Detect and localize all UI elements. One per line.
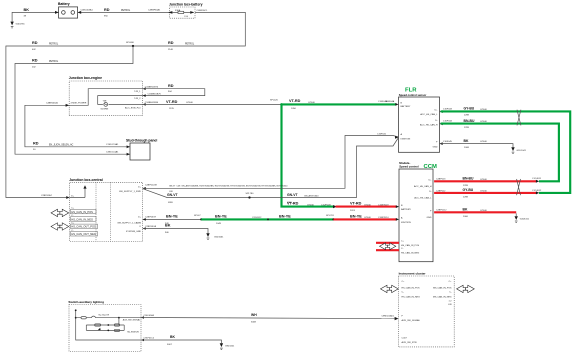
svg-text:PETROL: PETROL <box>49 61 59 63</box>
svg-text:RD: RD <box>32 41 38 45</box>
svg-text:C16BT014: C16BT014 <box>378 217 389 219</box>
svg-text:RD: RD <box>32 59 38 63</box>
svg-text:GT040: GT040 <box>480 141 487 143</box>
svg-text:SPL780: SPL780 <box>246 193 255 195</box>
svg-text:C16F04A: C16F04A <box>385 100 395 103</box>
svg-text:PETROL: PETROL <box>185 43 195 45</box>
svg-text:GW_SUPPLY_1_CABIN: GW_SUPPLY_1_CABIN <box>117 221 141 224</box>
svg-text:HS_CAN_IN_NEG: HS_CAN_IN_NEG <box>401 252 420 255</box>
svg-text:C4BF30C1: C4BF30C1 <box>197 10 209 12</box>
svg-text:C16F044: C16F044 <box>443 121 453 123</box>
svg-text:G5D1061: G5D1061 <box>214 236 224 238</box>
svg-text:LIN: LIN <box>448 304 452 306</box>
svg-text:C2BP01J08: C2BP01J08 <box>145 184 157 186</box>
svg-text:ACC_HS_CAN_H: ACC_HS_CAN_H <box>420 123 438 126</box>
svg-text:SPL420: SPL420 <box>270 100 279 102</box>
svg-text:Speed control sensor: Speed control sensor <box>399 93 426 97</box>
svg-text:C-: C- <box>401 248 404 250</box>
svg-text:Sw_NavOff: Sw_NavOff <box>98 315 109 317</box>
svg-text:HS_CAN_IN_POS: HS_CAN_IN_POS <box>402 286 421 289</box>
svg-text:C007: C007 <box>402 338 408 340</box>
svg-text:2298: 2298 <box>463 197 469 199</box>
svg-text:GT040: GT040 <box>364 217 371 219</box>
svg-text:G1D1041: G1D1041 <box>517 150 527 152</box>
svg-text:4703E_POWER: 4703E_POWER <box>71 103 87 105</box>
svg-text:MS_CAN_IN_POS: MS_CAN_IN_POS <box>433 286 452 289</box>
svg-text:C4BE001A1: C4BE001A1 <box>46 102 59 105</box>
svg-text:VT-RD: VT-RD <box>289 99 301 103</box>
svg-text:Stud-through panel: Stud-through panel <box>126 138 157 142</box>
svg-text:BK: BK <box>24 8 30 12</box>
svg-text:C16BE01B74: C16BE01B74 <box>145 87 159 89</box>
svg-text:GN-VT: GN-VT <box>287 193 298 197</box>
svg-text:BN-YE: BN-YE <box>215 215 227 219</box>
svg-text:C2BP05G7: C2BP05G7 <box>145 217 157 219</box>
svg-text:Junction box-engine: Junction box-engine <box>69 76 102 80</box>
svg-text:HS_CAN_OUT_NEG: HS_CAN_OUT_NEG <box>71 232 96 236</box>
svg-text:D-: D- <box>429 191 432 193</box>
svg-text:MS_CAN_IN_NEG: MS_CAN_IN_NEG <box>433 296 452 299</box>
svg-text:C9LF01C2: C9LF01C2 <box>144 337 155 339</box>
svg-text:C16F043: C16F043 <box>443 109 453 111</box>
svg-text:50 BRN: 50 BRN <box>101 108 109 110</box>
svg-text:G401781: G401781 <box>16 24 26 26</box>
svg-text:GN-VT C08 GN_A/GT0340/BK, RD: GN-VT C08 GN_A/GT0340/BK, RD/GT0340/BK, … <box>169 184 288 187</box>
svg-text:HS_CAN_IN_POS: HS_CAN_IN_POS <box>401 244 420 247</box>
svg-text:VT-RD: VT-RD <box>350 202 362 206</box>
svg-text:HS_CAN_IN_POS: HS_CAN_IN_POS <box>71 210 93 214</box>
svg-text:2299: 2299 <box>464 127 470 129</box>
svg-text:BK: BK <box>464 139 469 143</box>
svg-text:GN_A/GT0340: GN_A/GT0340 <box>304 195 319 198</box>
svg-text:C9LF01A3: C9LF01A3 <box>144 314 155 317</box>
svg-text:F-E: F-E <box>185 16 189 18</box>
svg-text:RD: RD <box>168 41 174 45</box>
svg-text:BATTERY: BATTERY <box>401 105 411 108</box>
svg-text:BK: BK <box>165 224 171 228</box>
svg-text:RD: RD <box>104 8 110 12</box>
svg-text:PETROL: PETROL <box>121 10 131 12</box>
svg-text:ACC_EOB_FL0: ACC_EOB_FL0 <box>125 106 141 109</box>
svg-text:RD: RD <box>33 141 39 145</box>
svg-text:C2BP05G8: C2BP05G8 <box>145 226 157 228</box>
svg-text:1049: 1049 <box>216 223 222 225</box>
svg-text:VT-RD: VT-RD <box>166 100 178 104</box>
svg-text:2008: 2008 <box>464 147 470 149</box>
svg-text:G9D1161: G9D1161 <box>225 346 235 348</box>
svg-text:T4F_1: T4F_1 <box>134 91 141 93</box>
svg-text:C-: C- <box>402 292 405 294</box>
svg-text:BK: BK <box>463 208 468 212</box>
svg-text:0920: 0920 <box>168 202 174 204</box>
svg-text:RD: RD <box>168 84 174 88</box>
svg-text:AUX_SW_SIGNAL: AUX_SW_SIGNAL <box>402 319 421 322</box>
svg-text:T4F_2: T4F_2 <box>134 98 141 100</box>
svg-text:1050: 1050 <box>291 108 297 110</box>
svg-text:C3SDC11A1: C3SDC11A1 <box>106 151 119 154</box>
svg-text:GT040: GT040 <box>480 121 487 123</box>
svg-text:C1SDC11A1: C1SDC11A1 <box>106 143 119 146</box>
svg-text:Speed control: Speed control <box>399 165 418 169</box>
svg-text:C16BE01B75: C16BE01B75 <box>148 94 162 96</box>
svg-text:2146: 2146 <box>168 49 174 51</box>
svg-text:C2G2012: C2G2012 <box>252 217 262 219</box>
svg-text:Junction box-battery: Junction box-battery <box>169 3 203 7</box>
svg-text:BN-YE: BN-YE <box>279 215 291 219</box>
svg-text:C4BC004A1: C4BC004A1 <box>81 9 94 12</box>
svg-text:HS_CAN_IN_NEG: HS_CAN_IN_NEG <box>71 217 93 221</box>
svg-text:5008: 5008 <box>251 321 257 323</box>
svg-text:C2BP013: C2BP013 <box>436 179 446 181</box>
svg-text:2006: 2006 <box>463 216 469 218</box>
svg-text:T4E: T4E <box>103 100 108 102</box>
svg-text:GT040: GT040 <box>307 204 314 206</box>
svg-text:ACC_HS_CAN_L: ACC_HS_CAN_L <box>420 113 438 116</box>
svg-text:TA_STATUS: TA_STATUS <box>127 330 139 333</box>
svg-text:GT040: GT040 <box>480 210 487 212</box>
svg-text:BN-BU: BN-BU <box>463 177 474 181</box>
svg-text:BK: BK <box>170 335 175 339</box>
svg-text:IGNITION: IGNITION <box>401 222 411 224</box>
svg-text:0920: 0920 <box>287 202 293 204</box>
svg-text:GT040: GT040 <box>308 102 315 104</box>
svg-text:GT040: GT040 <box>480 179 487 181</box>
svg-text:GT040: GT040 <box>186 102 193 104</box>
svg-text:WH: WH <box>251 313 257 317</box>
svg-text:PETROL: PETROL <box>49 43 59 45</box>
svg-text:SPL47: SPL47 <box>194 215 201 217</box>
svg-text:GY-BU: GY-BU <box>464 107 475 111</box>
svg-text:C9MC01A01: C9MC01A01 <box>381 314 394 317</box>
svg-text:C1C4011: C1C4011 <box>532 178 542 180</box>
svg-text:SPL480: SPL480 <box>126 42 135 44</box>
svg-text:AUX_SW_RTN: AUX_SW_RTN <box>402 341 417 344</box>
svg-text:GW_SUPPLY_1_FWD: GW_SUPPLY_1_FWD <box>119 191 142 193</box>
svg-text:ACC_HS_CAN_L: ACC_HS_CAN_L <box>414 196 432 199</box>
svg-text:2298: 2298 <box>464 115 470 117</box>
svg-text:Switch-auxiliary lighting: Switch-auxiliary lighting <box>68 300 104 304</box>
svg-text:Instrument cluster: Instrument cluster <box>399 272 427 276</box>
svg-text:GY-BU: GY-BU <box>463 188 474 192</box>
svg-text:BN-YE: BN-YE <box>350 215 362 219</box>
svg-text:C4EBF30A1: C4EBF30A1 <box>148 9 161 12</box>
svg-text:2299: 2299 <box>463 185 469 187</box>
svg-text:GT040: GT040 <box>480 191 487 193</box>
svg-text:C2BP0112: C2BP0112 <box>436 210 447 212</box>
svg-text:BATTERY: BATTERY <box>401 208 411 211</box>
svg-text:BN-YE: BN-YE <box>166 215 178 219</box>
svg-text:C16BT019: C16BT019 <box>378 204 389 206</box>
svg-text:5007: 5007 <box>167 344 173 346</box>
svg-text:D-: D- <box>435 120 438 122</box>
svg-text:FLR: FLR <box>405 88 417 94</box>
svg-text:BN-BU: BN-BU <box>464 119 475 123</box>
svg-text:ACC_HS_CAN_H: ACC_HS_CAN_H <box>414 185 432 188</box>
svg-text:C16BE01B30: C16BE01B30 <box>145 102 159 104</box>
svg-text:C16F045: C16F045 <box>443 141 453 143</box>
svg-text:IGNITION: IGNITION <box>401 139 411 141</box>
svg-text:GT040: GT040 <box>480 109 487 111</box>
svg-text:G4D1161: G4D1161 <box>520 219 530 221</box>
svg-text:C1C4012: C1C4012 <box>532 190 542 192</box>
svg-text:C2BP012: C2BP012 <box>436 190 446 192</box>
svg-text:SYSTEM_GND: SYSTEM_GND <box>126 231 141 233</box>
svg-text:C-: C- <box>449 292 452 294</box>
svg-text:Battery: Battery <box>58 2 70 6</box>
svg-text:Junction box-central: Junction box-central <box>69 178 102 182</box>
svg-text:GND: GND <box>433 147 438 149</box>
svg-text:HS_CAN_OUT_POS: HS_CAN_OUT_POS <box>71 225 96 229</box>
svg-text:2013: 2013 <box>350 210 356 212</box>
svg-text:C2BP01A7: C2BP01A7 <box>41 194 53 197</box>
svg-text:1135: 1135 <box>169 108 174 110</box>
svg-text:SPL781: SPL781 <box>326 215 335 217</box>
svg-text:C1UF01B: C1UF01B <box>321 204 331 206</box>
svg-text:HS_CAN_IN_NEG: HS_CAN_IN_NEG <box>402 296 421 299</box>
svg-text:GT040: GT040 <box>364 204 371 206</box>
svg-text:GND: GND <box>427 217 432 219</box>
svg-text:AUX_SW_SIGNAL: AUX_SW_SIGNAL <box>123 318 141 321</box>
svg-text:EN_JLION_SELEN_AC: EN_JLION_SELEN_AC <box>49 143 74 146</box>
svg-text:C16F041: C16F041 <box>377 134 387 136</box>
svg-text:GN-VT: GN-VT <box>167 193 178 197</box>
